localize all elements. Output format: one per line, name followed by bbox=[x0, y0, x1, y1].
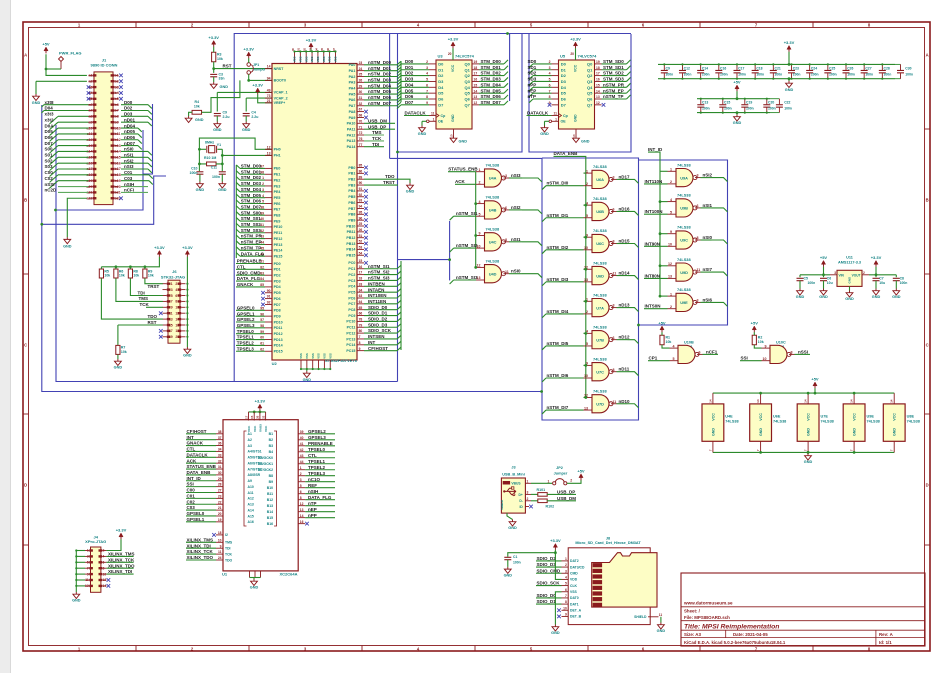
svg-text:C30: C30 bbox=[905, 66, 911, 70]
svg-text:D1: D1 bbox=[561, 67, 567, 72]
svg-text:6: 6 bbox=[175, 294, 177, 298]
wire R8 to TDI pin bbox=[130, 278, 162, 295]
U3 output pin Q6 bbox=[472, 98, 479, 100]
svg-text:GPSEL1: GPSEL1 bbox=[187, 517, 205, 522]
svg-text:C19: C19 bbox=[746, 101, 752, 105]
power +3.3V for R3 bbox=[212, 41, 216, 45]
svg-text:nSIH: nSIH bbox=[124, 182, 134, 187]
svg-text:100n: 100n bbox=[702, 107, 710, 111]
U2 left pin VCAP_1 bbox=[265, 91, 272, 93]
svg-text:nSI2: nSI2 bbox=[511, 205, 521, 210]
svg-text:15: 15 bbox=[250, 415, 254, 419]
svg-text:nEP: nEP bbox=[528, 88, 537, 93]
U1 right pin PRENABLE bbox=[298, 445, 305, 447]
svg-text:nSTM_DI6: nSTM_DI6 bbox=[547, 373, 569, 378]
svg-text:SSI: SSI bbox=[741, 356, 748, 361]
svg-text:100n: 100n bbox=[720, 72, 728, 76]
svg-text:14: 14 bbox=[175, 317, 179, 321]
svg-text:11: 11 bbox=[218, 550, 222, 554]
power unit U4E 74LS38 bbox=[702, 404, 724, 441]
U2 lower-right port C pins bbox=[357, 262, 364, 264]
svg-text:20: 20 bbox=[175, 335, 179, 339]
svg-text:b19: b19 bbox=[115, 179, 121, 183]
svg-text:9890 ID CONN: 9890 ID CONN bbox=[91, 63, 118, 68]
U2 right port B pins bbox=[357, 167, 364, 169]
svg-text:PE7: PE7 bbox=[274, 208, 281, 212]
svg-text:19: 19 bbox=[218, 518, 222, 522]
svg-text:9: 9 bbox=[765, 344, 767, 348]
power unit boxes row U4E U6E U7E U9E U8E bbox=[713, 392, 895, 394]
svg-text:B15: B15 bbox=[267, 516, 273, 520]
svg-text:PE9: PE9 bbox=[274, 219, 281, 223]
svg-text:VAUX: VAUX bbox=[259, 424, 263, 432]
svg-text:26: 26 bbox=[359, 228, 363, 232]
notes blue connector to gate box bbox=[390, 157, 542, 159]
wire crystal to PH1 bbox=[222, 149, 272, 155]
svg-text:STM_SD1: STM_SD1 bbox=[603, 65, 624, 70]
capacitor C20 100n bbox=[766, 99, 768, 105]
title block bbox=[681, 573, 925, 646]
capacitor C18 100n bbox=[754, 64, 756, 70]
svg-text:PA1: PA1 bbox=[349, 69, 356, 73]
svg-text:B14: B14 bbox=[267, 510, 273, 514]
svg-text:GND: GND bbox=[796, 295, 805, 299]
svg-text:SDIO_D0: SDIO_D0 bbox=[368, 305, 388, 310]
capacitor C1 100n bbox=[508, 553, 556, 557]
svg-text:PD1: PD1 bbox=[274, 268, 281, 272]
no-connect marks J4 bbox=[107, 578, 111, 582]
svg-text:ACK: ACK bbox=[455, 179, 465, 184]
capacitor C12 100n bbox=[681, 64, 683, 70]
svg-text:VCC: VCC bbox=[893, 413, 897, 421]
svg-text:+5V: +5V bbox=[733, 80, 741, 85]
svg-text:D02: D02 bbox=[405, 71, 414, 76]
svg-text:13: 13 bbox=[596, 95, 600, 99]
J3 pin D+ through R101 bbox=[525, 493, 531, 495]
svg-text:GND: GND bbox=[32, 101, 41, 105]
U2 right usb and jtag pins bbox=[357, 111, 364, 113]
U5 input pin D5 bbox=[552, 92, 559, 94]
svg-text:A9: A9 bbox=[248, 479, 252, 483]
svg-text:nSTM_PR: nSTM_PR bbox=[241, 234, 263, 239]
U2 top power pins VDD bbox=[294, 52, 296, 64]
capacitor C9 2.2u bbox=[216, 92, 218, 111]
svg-text:C22: C22 bbox=[784, 101, 790, 105]
svg-text:XILINX_TDO: XILINX_TDO bbox=[187, 555, 214, 560]
svg-text:Jumper: Jumper bbox=[554, 472, 568, 476]
svg-text:PD4: PD4 bbox=[274, 285, 281, 289]
svg-text:U2: U2 bbox=[272, 361, 278, 366]
svg-text:53: 53 bbox=[359, 246, 363, 250]
pullup resistor R8 10k bbox=[128, 269, 132, 278]
svg-text:10u: 10u bbox=[879, 281, 885, 285]
no-connect marks J8 DET pins bbox=[557, 608, 561, 612]
svg-text:PH0: PH0 bbox=[274, 148, 281, 152]
svg-text:17: 17 bbox=[359, 271, 363, 275]
svg-text:b10: b10 bbox=[115, 126, 121, 130]
svg-text:b15: b15 bbox=[115, 156, 121, 160]
svg-text:+5V: +5V bbox=[820, 255, 828, 260]
wire XILINX_TMS bbox=[106, 555, 133, 557]
ground below U3 bbox=[453, 129, 455, 136]
capacitor C11 100n bbox=[221, 164, 223, 171]
notes blue box around gate column 3 bbox=[639, 160, 728, 325]
svg-text:C12: C12 bbox=[684, 66, 690, 70]
svg-text:1: 1 bbox=[433, 117, 435, 121]
svg-text:INT: INT bbox=[368, 340, 376, 345]
svg-text:PB13: PB13 bbox=[346, 242, 355, 246]
J8 pin VDD bbox=[562, 578, 569, 580]
svg-text:73: 73 bbox=[267, 94, 271, 98]
svg-text:3: 3 bbox=[834, 271, 836, 275]
svg-text:nD17: nD17 bbox=[619, 174, 631, 179]
svg-text:STM_D06: STM_D06 bbox=[241, 199, 262, 204]
U2 left bus vertical for STM_D bbox=[235, 165, 237, 258]
svg-text:100n: 100n bbox=[190, 171, 198, 175]
svg-text:nSTM_DI4: nSTM_DI4 bbox=[547, 309, 569, 314]
svg-text:INT10EN: INT10EN bbox=[368, 293, 387, 298]
U1 right pin nSIH bbox=[298, 493, 305, 495]
svg-text:PC3: PC3 bbox=[348, 279, 355, 283]
svg-text:B11: B11 bbox=[267, 492, 273, 496]
svg-text:SDIO_D2: SDIO_D2 bbox=[368, 317, 388, 322]
svg-text:13: 13 bbox=[169, 317, 173, 321]
svg-text:74LS38: 74LS38 bbox=[486, 258, 500, 263]
svg-text:D+: D+ bbox=[518, 493, 522, 497]
svg-text:DATACLK: DATACLK bbox=[405, 111, 427, 116]
svg-text:100n: 100n bbox=[884, 72, 892, 76]
ground below J6 right rail bbox=[186, 347, 188, 349]
svg-text:PC8: PC8 bbox=[348, 308, 355, 312]
svg-text:nD06: nD06 bbox=[124, 135, 136, 140]
svg-text:16: 16 bbox=[474, 78, 478, 82]
svg-text:DATA_FLG: DATA_FLG bbox=[241, 251, 265, 256]
svg-text:ACK: ACK bbox=[187, 458, 197, 463]
svg-text:18: 18 bbox=[474, 66, 478, 70]
svg-text:10k: 10k bbox=[148, 274, 154, 278]
svg-text:nSTM_D03: nSTM_D03 bbox=[368, 77, 392, 82]
wire C4 to VCAP_2 bbox=[246, 97, 272, 99]
svg-text:GND: GND bbox=[242, 128, 251, 132]
capacitor C9 100n bbox=[663, 64, 665, 70]
power unit U8E 74LS38 bbox=[883, 404, 905, 441]
svg-text:PE3: PE3 bbox=[274, 184, 281, 188]
svg-text:nSTM_D07: nSTM_D07 bbox=[368, 101, 392, 106]
svg-text:C15: C15 bbox=[724, 101, 730, 105]
U1 right pin REF bbox=[298, 487, 305, 489]
svg-text:nD16: nD16 bbox=[619, 206, 631, 211]
svg-text:100n: 100n bbox=[768, 107, 776, 111]
U1 pin I2 no-connect bbox=[216, 534, 223, 536]
svg-text:D: D bbox=[24, 483, 27, 488]
svg-text:A14: A14 bbox=[248, 508, 254, 512]
svg-text:A: A bbox=[926, 53, 929, 58]
svg-text:U7A: U7A bbox=[596, 305, 604, 310]
svg-text:C01: C01 bbox=[187, 493, 196, 498]
svg-text:NRST: NRST bbox=[274, 67, 285, 71]
svg-text:24: 24 bbox=[359, 67, 363, 71]
svg-text:U4A: U4A bbox=[489, 176, 497, 181]
svg-text:U6C: U6C bbox=[596, 241, 604, 246]
J8 card contact pads bbox=[593, 563, 603, 567]
svg-text:85: 85 bbox=[359, 164, 363, 168]
svg-text:PB8: PB8 bbox=[348, 213, 355, 217]
svg-text:U10C: U10C bbox=[776, 341, 786, 345]
svg-text:PC12: PC12 bbox=[346, 331, 355, 335]
svg-text:+3.3V: +3.3V bbox=[243, 47, 254, 52]
svg-text:U7E: U7E bbox=[821, 415, 829, 419]
svg-text:19: 19 bbox=[596, 60, 600, 64]
svg-text:94: 94 bbox=[359, 205, 363, 209]
svg-text:VREF+: VREF+ bbox=[274, 101, 286, 105]
svg-text:PA8: PA8 bbox=[349, 110, 356, 114]
svg-text:49: 49 bbox=[267, 89, 271, 93]
svg-text:12: 12 bbox=[300, 502, 304, 506]
svg-text:U4C: U4C bbox=[489, 240, 497, 245]
U5 clock pin Cp with DATACLK bbox=[552, 115, 559, 117]
svg-text:VDD: VDD bbox=[316, 56, 320, 62]
svg-text:10: 10 bbox=[175, 306, 179, 310]
svg-text:100n: 100n bbox=[900, 281, 908, 285]
svg-text:10k: 10k bbox=[104, 274, 110, 278]
svg-text:15: 15 bbox=[596, 83, 600, 87]
svg-text:R101: R101 bbox=[537, 488, 546, 492]
U1 right pin TPSEL0 bbox=[298, 451, 305, 453]
svg-text:A2: A2 bbox=[248, 438, 252, 442]
svg-text:D3: D3 bbox=[561, 79, 567, 84]
svg-text:Q5: Q5 bbox=[464, 91, 470, 96]
U2 left port E pins with STM data bus labels bbox=[265, 167, 272, 169]
svg-text:S01: S01 bbox=[45, 153, 54, 158]
svg-text:100n: 100n bbox=[811, 72, 819, 76]
svg-text:1: 1 bbox=[479, 168, 481, 172]
svg-text:PE6: PE6 bbox=[274, 202, 281, 206]
svg-text:32: 32 bbox=[218, 459, 222, 463]
U1 inner pin bank brackets bbox=[244, 431, 247, 526]
svg-text:5: 5 bbox=[300, 484, 302, 488]
wire R5 to TDO pin bbox=[101, 278, 162, 319]
svg-text:C21: C21 bbox=[775, 66, 781, 70]
svg-text:14: 14 bbox=[267, 65, 271, 69]
svg-text:SDIO_D1: SDIO_D1 bbox=[368, 311, 388, 316]
svg-text:3: 3 bbox=[613, 304, 615, 308]
nand gate U10C 74LS38 with pullup bbox=[752, 326, 756, 330]
svg-text:nSTM_DI3: nSTM_DI3 bbox=[547, 277, 569, 282]
svg-text:10k: 10k bbox=[119, 274, 125, 278]
svg-text:6: 6 bbox=[565, 588, 567, 592]
svg-text:VCC: VCC bbox=[711, 413, 715, 421]
svg-text:D03: D03 bbox=[124, 112, 133, 117]
J8 pin VSS bbox=[562, 591, 569, 593]
svg-text:TCK: TCK bbox=[372, 136, 382, 141]
svg-text:+5V: +5V bbox=[811, 377, 819, 382]
svg-text:PE10: PE10 bbox=[274, 225, 283, 229]
svg-text:100n: 100n bbox=[808, 281, 816, 285]
svg-text:10: 10 bbox=[584, 374, 588, 378]
svg-text:B6/GCK1: B6/GCK1 bbox=[258, 462, 273, 466]
svg-text:PC5: PC5 bbox=[348, 290, 355, 294]
svg-text:USB_DM: USB_DM bbox=[557, 496, 576, 501]
U3 output pin Q3 bbox=[472, 80, 479, 82]
capacitor C10 100n bbox=[198, 164, 200, 171]
J1 left signal wires with bus entries bbox=[44, 104, 89, 106]
svg-text:74LVC574: 74LVC574 bbox=[578, 53, 598, 58]
svg-text:6: 6 bbox=[613, 336, 615, 340]
svg-text:7: 7 bbox=[359, 335, 361, 339]
svg-text:11: 11 bbox=[554, 112, 558, 116]
svg-text:3: 3 bbox=[527, 490, 529, 494]
U1 right pin CTL bbox=[298, 457, 305, 459]
U2 left pin VREF+ bbox=[265, 102, 272, 104]
svg-text:GPSEL1: GPSEL1 bbox=[237, 311, 255, 316]
svg-text:3: 3 bbox=[697, 299, 699, 303]
svg-text:77: 77 bbox=[359, 143, 363, 147]
wire NRST net with RST label bbox=[214, 62, 272, 69]
svg-text:2: 2 bbox=[175, 282, 177, 286]
svg-text:2: 2 bbox=[103, 549, 105, 553]
svg-text:18: 18 bbox=[218, 531, 222, 535]
svg-text:2: 2 bbox=[586, 182, 588, 186]
svg-text:CTL: CTL bbox=[237, 264, 246, 269]
svg-text:JP2: JP2 bbox=[556, 466, 563, 470]
svg-text:8: 8 bbox=[613, 240, 615, 244]
svg-text:PE8: PE8 bbox=[274, 214, 281, 218]
svg-text:b17: b17 bbox=[115, 167, 121, 171]
power +3.3V to VREF+ bbox=[256, 88, 260, 92]
svg-text:TPSEL3: TPSEL3 bbox=[308, 471, 326, 476]
svg-text:GPSEL0: GPSEL0 bbox=[187, 511, 205, 516]
svg-text:U11: U11 bbox=[846, 255, 853, 259]
svg-text:A10: A10 bbox=[248, 485, 254, 489]
svg-text:nSTM_D00: nSTM_D00 bbox=[368, 60, 392, 65]
svg-text:GND: GND bbox=[72, 599, 81, 603]
svg-text:VSS: VSS bbox=[323, 353, 327, 359]
svg-text:STM_D05: STM_D05 bbox=[241, 193, 262, 198]
svg-text:TPSEL1: TPSEL1 bbox=[237, 335, 255, 340]
ground for cap row bbox=[788, 79, 790, 81]
svg-text:Q0: Q0 bbox=[587, 61, 593, 66]
svg-text:34: 34 bbox=[218, 448, 222, 452]
svg-text:PA2: PA2 bbox=[349, 75, 356, 79]
ground for power units bbox=[807, 452, 809, 453]
ground below U5 bbox=[575, 129, 577, 136]
svg-text:DATA_FLG: DATA_FLG bbox=[237, 276, 261, 281]
svg-text:GND: GND bbox=[711, 428, 715, 436]
svg-text:Date: 2021-04-05: Date: 2021-04-05 bbox=[733, 632, 768, 637]
svg-text:100n: 100n bbox=[847, 72, 855, 76]
voltage regulator U11 AMS1117-3.3 bbox=[837, 270, 862, 286]
U1 right pin TPSEL2 bbox=[298, 469, 305, 471]
U1 right pin GPSEL2 bbox=[298, 433, 305, 435]
junction dots on note lines bbox=[54, 209, 57, 212]
svg-text:VDD: VDD bbox=[293, 56, 297, 62]
J8 pin CMD bbox=[562, 572, 569, 574]
svg-text:U4E: U4E bbox=[725, 415, 733, 419]
svg-text:8: 8 bbox=[505, 238, 507, 242]
svg-text:11: 11 bbox=[697, 268, 701, 272]
svg-text:U9E: U9E bbox=[867, 415, 875, 419]
svg-text:GPSEL3: GPSEL3 bbox=[237, 323, 255, 328]
U2 lower-left port D pins bbox=[265, 263, 272, 265]
svg-text:D3: D3 bbox=[438, 79, 444, 84]
capacitor C16 100n bbox=[718, 64, 720, 70]
svg-text:DATA_FLG: DATA_FLG bbox=[308, 495, 332, 500]
U1 right pin nTP bbox=[298, 505, 305, 507]
svg-text:14: 14 bbox=[850, 399, 854, 403]
svg-text:C11: C11 bbox=[211, 165, 217, 169]
svg-text:INTBEN: INTBEN bbox=[368, 281, 385, 286]
svg-text:a8: a8 bbox=[89, 115, 93, 119]
svg-text:PC7: PC7 bbox=[348, 302, 355, 306]
svg-text:11: 11 bbox=[85, 578, 89, 582]
svg-text:PC11: PC11 bbox=[347, 326, 356, 330]
svg-text:GND: GND bbox=[759, 428, 763, 436]
wire R4 to BOOT0 rail bbox=[202, 80, 240, 112]
svg-text:+3.3V: +3.3V bbox=[570, 37, 581, 42]
U5 output pin Q7 bbox=[595, 104, 602, 106]
svg-text:SD0: SD0 bbox=[528, 59, 537, 64]
svg-text:26: 26 bbox=[359, 78, 363, 82]
svg-text:10k: 10k bbox=[194, 105, 200, 109]
svg-text:SDIO_D1: SDIO_D1 bbox=[537, 599, 557, 604]
svg-text:D6: D6 bbox=[438, 97, 444, 102]
svg-text:STATUS_ENB: STATUS_ENB bbox=[448, 167, 478, 172]
capacitor C5 100n bbox=[799, 275, 801, 277]
U1 top power pins bbox=[258, 404, 262, 408]
svg-text:12: 12 bbox=[474, 101, 478, 105]
wire TCK to J6 bbox=[146, 306, 163, 308]
jumper JP1 bbox=[247, 63, 251, 67]
svg-text:VCC: VCC bbox=[759, 413, 763, 421]
svg-text:nSI0: nSI0 bbox=[124, 147, 134, 152]
svg-text:B9: B9 bbox=[269, 480, 273, 484]
svg-text:12: 12 bbox=[668, 262, 672, 266]
svg-text:B7/GCK2: B7/GCK2 bbox=[258, 468, 273, 472]
U2 left pin VCAP_2 bbox=[265, 97, 272, 99]
svg-text:+5V: +5V bbox=[658, 321, 666, 326]
pullup resistor R5 10k bbox=[99, 269, 103, 278]
svg-text:90: 90 bbox=[359, 181, 363, 185]
svg-text:www.datormuseum.se: www.datormuseum.se bbox=[683, 601, 733, 606]
wire C9 to VCAP_1 bbox=[217, 91, 272, 93]
svg-text:4: 4 bbox=[565, 576, 567, 580]
svg-text:XPro-JTAG: XPro-JTAG bbox=[85, 539, 106, 544]
svg-text:D: D bbox=[926, 483, 929, 488]
svg-text:nPP: nPP bbox=[308, 513, 317, 518]
J8 pin DET_A bbox=[562, 609, 569, 611]
svg-text:C03: C03 bbox=[124, 176, 133, 181]
resistor R3 10k bbox=[212, 52, 216, 62]
svg-text:10k: 10k bbox=[666, 340, 672, 344]
notes blue loop around J1 outer bbox=[42, 176, 542, 392]
svg-text:100n: 100n bbox=[775, 72, 783, 76]
svg-text:D05: D05 bbox=[405, 88, 414, 93]
svg-text:8: 8 bbox=[697, 236, 699, 240]
svg-text:20: 20 bbox=[570, 52, 574, 56]
J8 pin DAT1 bbox=[562, 603, 569, 605]
svg-text:A16: A16 bbox=[248, 520, 254, 524]
svg-text:1: 1 bbox=[548, 479, 550, 483]
U1 right pin TPSEL3 bbox=[298, 475, 305, 477]
wire J1 pin a22 to ground bbox=[67, 198, 87, 237]
svg-text:GND: GND bbox=[114, 366, 123, 370]
svg-text:XILINX_TDI: XILINX_TDI bbox=[108, 569, 132, 574]
svg-text:STATUS_ENB: STATUS_ENB bbox=[187, 464, 217, 469]
svg-text:A: A bbox=[24, 53, 27, 58]
svg-text:GND: GND bbox=[819, 295, 828, 299]
svg-text:74LS38: 74LS38 bbox=[486, 195, 500, 200]
svg-text:91: 91 bbox=[267, 295, 271, 299]
